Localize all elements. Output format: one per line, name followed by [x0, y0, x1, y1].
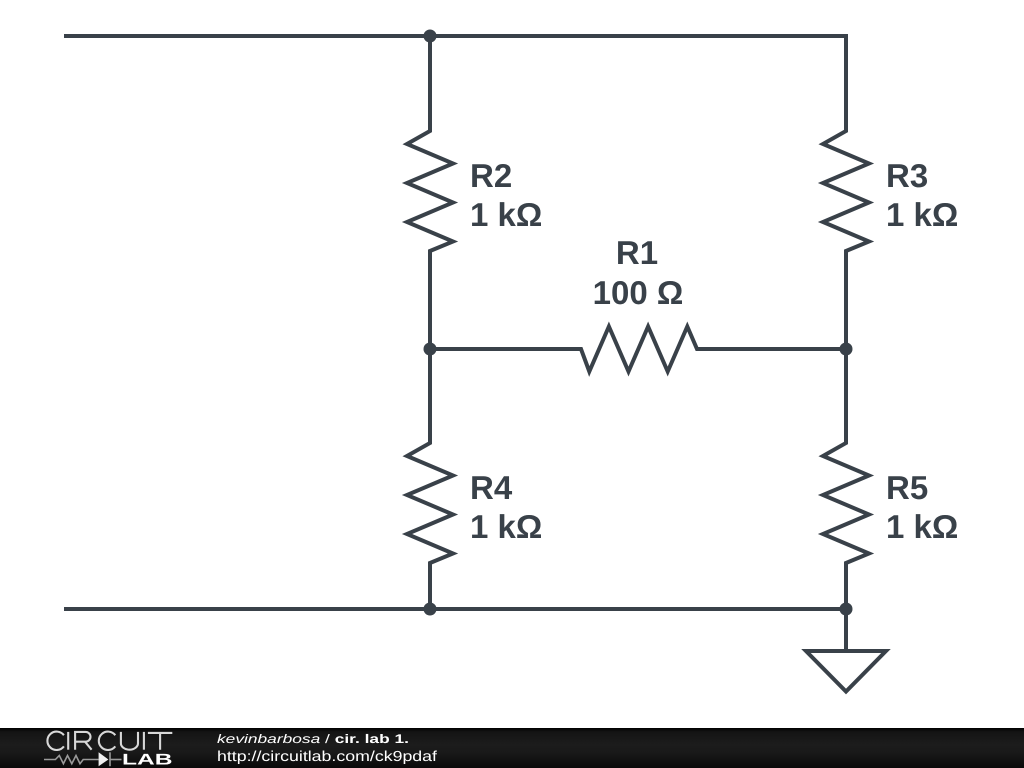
wire ground lead [844, 609, 848, 651]
footer bar [0, 728, 1024, 768]
svg-text:100 Ω: 100 Ω [593, 274, 684, 311]
node bottom right junction [840, 603, 853, 616]
wire bottom rail [64, 607, 846, 611]
node mid right junction [840, 343, 853, 356]
logo diode triangle [99, 752, 109, 766]
node mid left junction [424, 343, 437, 356]
svg-text:1 kΩ: 1 kΩ [470, 508, 542, 545]
svg-text:R3: R3 [886, 157, 928, 194]
resistor R3 [823, 126, 869, 256]
resistor R4 [407, 438, 453, 568]
svg-text:1 kΩ: 1 kΩ [886, 196, 958, 233]
resistor R1 [576, 327, 702, 372]
wire R4 to bottom rail [428, 563, 432, 609]
svg-text:R1: R1 [616, 234, 658, 271]
svg-text:R5: R5 [886, 469, 928, 506]
wire R2 to mid node [428, 251, 432, 349]
svg-text:1 kΩ: 1 kΩ [470, 196, 542, 233]
wire right mid node to R5 [844, 349, 848, 443]
logo CIRCUIT (thin geometric letters) [47, 732, 172, 750]
wire mid right segment [697, 347, 846, 351]
node bottom left junction [424, 603, 437, 616]
resistor R2 [407, 126, 453, 256]
wire top rail [64, 36, 846, 131]
svg-text:kevinbarbosa / cir. lab 1.: kevinbarbosa / cir. lab 1. [217, 732, 409, 746]
wire left branch upper lead [428, 36, 432, 131]
svg-text:http://circuitlab.com/ck9pdaf: http://circuitlab.com/ck9pdaf [217, 749, 438, 765]
svg-text:LAB: LAB [122, 752, 173, 768]
ground symbol [806, 651, 886, 692]
wire R5 to bottom rail [844, 563, 848, 609]
svg-text:1 kΩ: 1 kΩ [886, 508, 958, 545]
wire mid left segment [430, 347, 581, 351]
resistor R5 [823, 438, 869, 568]
wire R3 to right mid node [844, 251, 848, 349]
svg-text:R2: R2 [470, 157, 512, 194]
node top junction [424, 30, 437, 43]
logo resistor-diode squiggle [44, 752, 122, 766]
wire mid node to R4 [428, 349, 432, 443]
svg-text:R4: R4 [470, 469, 513, 506]
